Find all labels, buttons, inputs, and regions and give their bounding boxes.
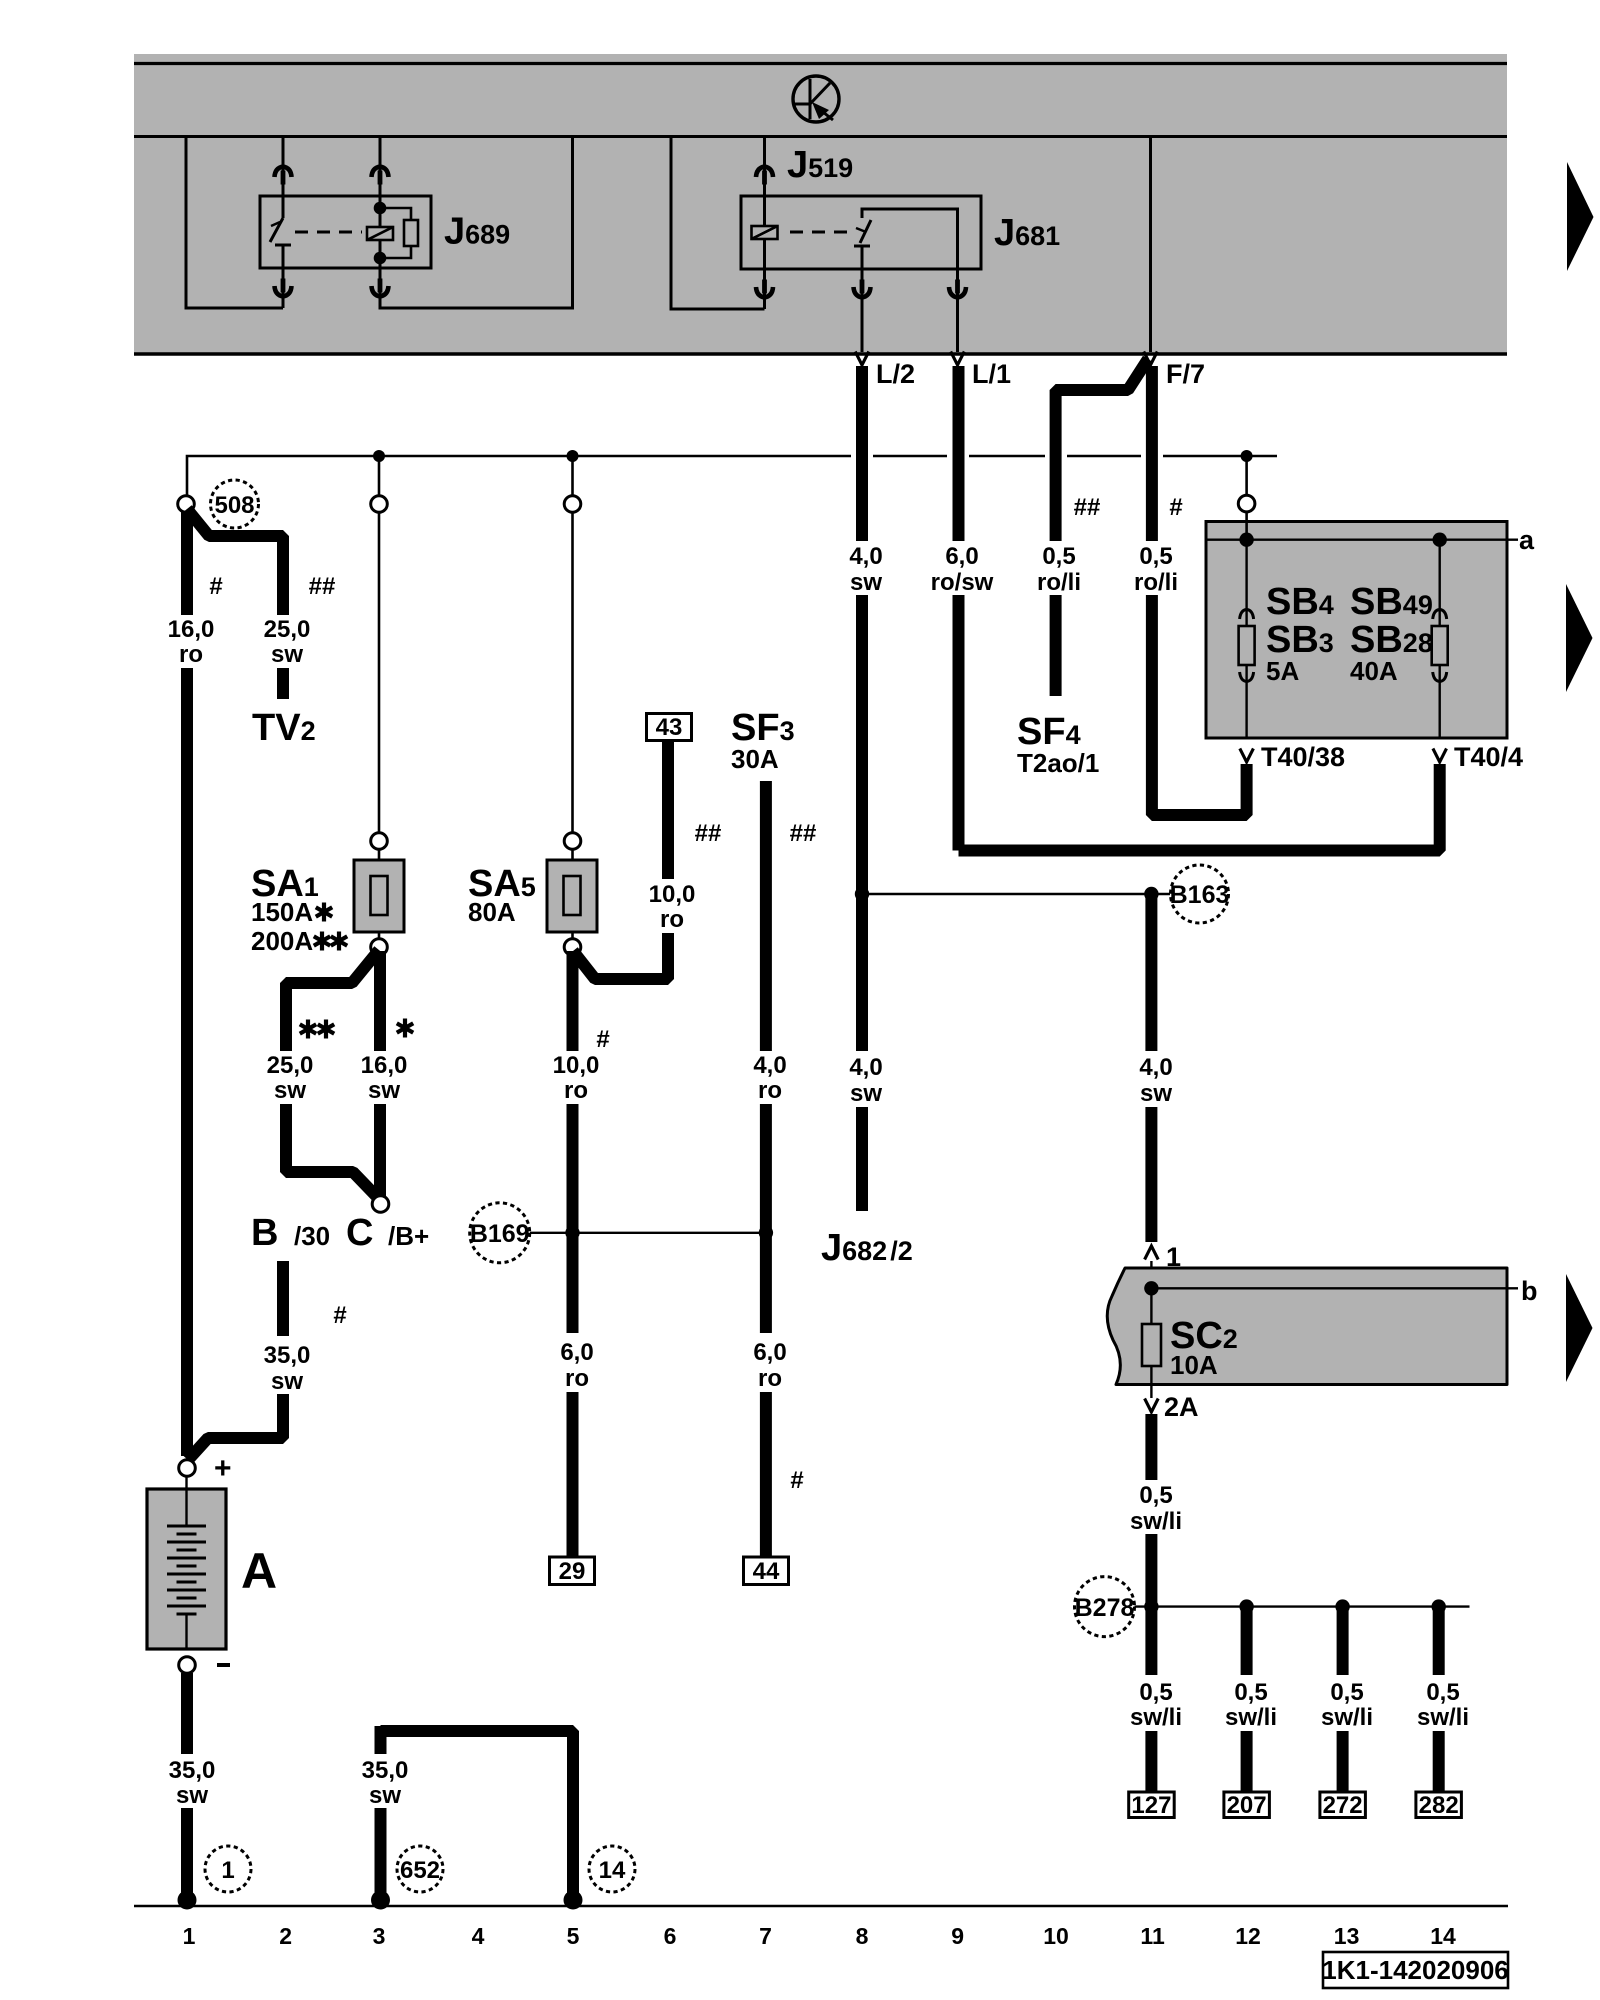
svg-text:8: 8 xyxy=(856,1923,869,1949)
svg-text:10A: 10A xyxy=(1170,1350,1218,1380)
wire: 4,0 ro from SF3 xyxy=(753,781,816,1333)
svg-text:2: 2 xyxy=(279,1923,292,1949)
svg-text:207: 207 xyxy=(1227,1792,1267,1819)
node coil bottom xyxy=(374,252,387,265)
svg-text:T40/4: T40/4 xyxy=(1454,742,1523,772)
svg-text:ro: ro xyxy=(565,1365,589,1392)
wire: 6,0 ro/sw from L/1 (column 9) xyxy=(931,366,994,851)
connector exit F/7 xyxy=(1144,352,1158,366)
wire: 4,0 sw to SC2 (column 11) xyxy=(1139,894,1172,1242)
diagram number box xyxy=(1322,1952,1509,1988)
connection B278 xyxy=(1075,1577,1470,1637)
battery negative terminal xyxy=(179,1657,230,1674)
svg-text:16,0: 16,0 xyxy=(361,1052,408,1079)
svg-text:25,0: 25,0 xyxy=(267,1052,314,1079)
svg-text:3: 3 xyxy=(373,1923,386,1949)
svg-text:1: 1 xyxy=(183,1923,196,1949)
svg-text:6,0: 6,0 xyxy=(945,543,978,570)
wire: 0,5 sw/li to terminal 272 xyxy=(1320,1607,1373,1819)
connector T40/38 xyxy=(1240,742,1345,772)
wire: J689 left supply loop xyxy=(186,137,283,309)
wire: 0,5 sw/li to terminal 207 xyxy=(1224,1607,1277,1819)
continuation arrow (SC right) xyxy=(1566,1274,1593,1382)
svg-text:##: ## xyxy=(695,820,722,847)
electronics box (top gray band) xyxy=(134,54,1507,356)
svg-text:ro: ro xyxy=(758,1077,782,1104)
svg-text:+: + xyxy=(214,1452,232,1485)
svg-text:29: 29 xyxy=(559,1558,586,1585)
battery A xyxy=(147,1477,277,1649)
continuation arrow (top right) xyxy=(1567,162,1594,271)
fuse SB4/SB3 xyxy=(1245,540,1247,738)
svg-text:C: C xyxy=(346,1212,373,1254)
wire: 25,0 sw branch to TV2 xyxy=(187,509,335,699)
wire: 10,0 ro below SA5 xyxy=(553,951,610,1333)
wire: 35,0 sw ground strap (column 3) xyxy=(362,1726,583,1910)
svg-text:43: 43 xyxy=(656,714,683,741)
svg-text:6: 6 xyxy=(664,1923,677,1949)
svg-text:ro/li: ro/li xyxy=(1134,569,1178,596)
svg-text:16,0: 16,0 xyxy=(168,616,215,643)
svg-text:127: 127 xyxy=(1131,1792,1171,1819)
resistor parallel to coil xyxy=(380,208,411,258)
svg-text:10: 10 xyxy=(1043,1923,1069,1949)
svg-text:#: # xyxy=(790,1467,803,1494)
wire: 16,0 ro battery positive (column 1) xyxy=(168,511,223,1456)
svg-text:sw/li: sw/li xyxy=(1417,1704,1469,1731)
relay J681 xyxy=(671,137,1060,353)
relay J689 xyxy=(186,137,573,309)
svg-text:b: b xyxy=(1521,1276,1538,1306)
wire: coil pin below box to right loop xyxy=(380,137,573,309)
wire: coil pin below box to left loop xyxy=(763,269,766,309)
svg-text:14: 14 xyxy=(1430,1923,1456,1949)
wire: feed to fuse SA5 xyxy=(564,456,581,860)
internal bus b xyxy=(1151,1287,1518,1289)
svg-text:ro: ro xyxy=(179,641,203,668)
svg-text:sw/li: sw/li xyxy=(1130,1704,1182,1731)
svg-text:35,0: 35,0 xyxy=(169,1757,216,1784)
svg-text:##: ## xyxy=(1074,494,1101,521)
node a-bus right xyxy=(1433,533,1447,547)
svg-text:a: a xyxy=(1519,525,1535,555)
fuse box SC (fuse holder, torn edge) xyxy=(1107,1268,1537,1385)
relay coil J681 xyxy=(763,196,766,226)
switch contact J681 xyxy=(854,209,958,269)
svg-text:0,5: 0,5 xyxy=(1042,543,1075,570)
fuse box SB (micro-central electrics) xyxy=(1206,456,1535,738)
svg-text:sw/li: sw/li xyxy=(1225,1704,1277,1731)
wire: J689 coil pin from bus xyxy=(379,137,382,197)
svg-text:12: 12 xyxy=(1235,1923,1261,1949)
svg-text:4: 4 xyxy=(472,1923,485,1949)
connection B169 xyxy=(470,1203,773,1263)
K symbol (data bus connection) xyxy=(793,76,839,122)
svg-text:0,5: 0,5 xyxy=(1139,1679,1172,1706)
svg-text:sw/li: sw/li xyxy=(1321,1704,1373,1731)
svg-text:/30: /30 xyxy=(294,1221,330,1251)
wire: 10,0 ro branch to terminal 43 xyxy=(573,714,721,980)
svg-text:10,0: 10,0 xyxy=(553,1052,600,1079)
svg-text:ro: ro xyxy=(660,906,684,933)
battery positive terminal xyxy=(179,1452,232,1485)
node coil top xyxy=(374,202,387,215)
svg-text:sw: sw xyxy=(274,1077,306,1104)
ground rail xyxy=(134,1905,1508,1908)
connection B163 xyxy=(862,865,1229,923)
node B278/column 14 xyxy=(1432,1599,1446,1613)
ground point 14 xyxy=(589,1846,635,1892)
svg-text:0,5: 0,5 xyxy=(1330,1679,1363,1706)
svg-text:4,0: 4,0 xyxy=(753,1052,786,1079)
fuse SF4 xyxy=(1017,711,1099,778)
svg-text:4,0: 4,0 xyxy=(849,543,882,570)
wire: feed to fuse SA1 xyxy=(371,456,388,860)
wire: switch pin to band edge (L/2) xyxy=(861,269,864,352)
svg-text:11: 11 xyxy=(1140,1923,1165,1949)
relay coil J689 xyxy=(379,196,382,227)
svg-text:25,0: 25,0 xyxy=(264,616,311,643)
node rail/SA5 xyxy=(567,450,579,462)
wire: F/7 feed line inside band xyxy=(1149,137,1152,353)
svg-text:F/7: F/7 xyxy=(1166,359,1205,389)
svg-text:#: # xyxy=(209,573,222,600)
svg-text:0,5: 0,5 xyxy=(1234,1679,1267,1706)
connector 2A xyxy=(1145,1385,1199,1423)
svg-text:B: B xyxy=(251,1212,278,1254)
node b-bus xyxy=(1144,1281,1158,1295)
wire: 6,0 ro to terminal 44 xyxy=(744,1339,804,1585)
node B169/SA5 wire xyxy=(565,1226,579,1240)
svg-text:ro: ro xyxy=(564,1077,588,1104)
svg-text:B278: B278 xyxy=(1075,1594,1135,1622)
svg-text:#: # xyxy=(333,1302,346,1329)
svg-text:40A: 40A xyxy=(1350,656,1398,686)
svg-text:T2ao/1: T2ao/1 xyxy=(1017,748,1099,778)
svg-text:sw: sw xyxy=(850,1080,882,1107)
ground point 652 xyxy=(397,1846,443,1892)
wire: J519 coil pin from bus xyxy=(763,137,766,197)
svg-text:7: 7 xyxy=(759,1923,772,1949)
relay J681 box xyxy=(741,196,981,269)
fuse SF3 xyxy=(731,707,795,774)
wire: 0,5 sw/li below SC2 (column 11) xyxy=(1129,1414,1182,1819)
svg-text:sw: sw xyxy=(369,1782,401,1809)
svg-text:150A: 150A xyxy=(251,897,313,927)
svg-text:#: # xyxy=(596,1026,609,1053)
svg-text:##: ## xyxy=(790,820,817,847)
svg-text:6,0: 6,0 xyxy=(753,1339,786,1366)
svg-text:10,0: 10,0 xyxy=(649,881,696,908)
node B278/column 13 xyxy=(1335,1599,1349,1613)
svg-text:#: # xyxy=(1169,494,1182,521)
svg-text:sw/li: sw/li xyxy=(1130,1508,1182,1535)
svg-text:13: 13 xyxy=(1334,1923,1360,1949)
wire: 35,0 sw battery ground (column 1) xyxy=(169,1673,216,1910)
svg-text:14: 14 xyxy=(599,1857,626,1884)
wire: 25,0 sw alternator branch (left, **) xyxy=(267,950,379,1199)
wire: 6,0 ro/sw to T40/4 xyxy=(959,764,1440,851)
svg-text:T40/38: T40/38 xyxy=(1261,742,1345,772)
dashed actuation link xyxy=(790,231,848,234)
continuation arrow (SB right) xyxy=(1566,584,1593,692)
svg-text:ro/sw: ro/sw xyxy=(931,569,994,596)
svg-text:sw: sw xyxy=(368,1077,400,1104)
wire: 35,0 sw from B to battery positive xyxy=(188,1261,347,1460)
svg-text:L/1: L/1 xyxy=(972,359,1011,389)
svg-text:##: ## xyxy=(309,573,336,600)
pin 1 connector xyxy=(1145,1242,1181,1288)
connection 508 xyxy=(178,480,259,528)
wire: switch pin below box xyxy=(282,268,285,308)
svg-text:9: 9 xyxy=(951,1923,964,1949)
svg-text:5: 5 xyxy=(567,1923,580,1949)
svg-text:200A: 200A xyxy=(251,926,313,956)
svg-text:80A: 80A xyxy=(468,897,516,927)
svg-text:44: 44 xyxy=(753,1558,780,1585)
wire: 0,5 sw/li to terminal 282 xyxy=(1416,1607,1469,1819)
svg-text:272: 272 xyxy=(1323,1792,1363,1819)
svg-text:0,5: 0,5 xyxy=(1139,1482,1172,1509)
svg-text:4,0: 4,0 xyxy=(849,1054,882,1081)
grid numbers xyxy=(183,1923,1456,1949)
svg-text:B169: B169 xyxy=(470,1220,530,1248)
connector T40/4 xyxy=(1433,742,1523,772)
svg-text:4,0: 4,0 xyxy=(1139,1054,1172,1081)
fuse SB49/SB28 xyxy=(1438,540,1440,738)
fuse SC2 xyxy=(1150,1288,1152,1384)
svg-text:sw: sw xyxy=(850,569,882,596)
node rail/SB xyxy=(1241,450,1253,462)
terminal C /B+ xyxy=(346,1196,429,1254)
svg-text:508: 508 xyxy=(214,492,254,519)
wire: J689 switch pin from bus xyxy=(282,137,285,197)
node B169/SF3 wire xyxy=(759,1226,773,1240)
svg-text:6,0: 6,0 xyxy=(560,1339,593,1366)
svg-text:0,5: 0,5 xyxy=(1426,1679,1459,1706)
svg-text:652: 652 xyxy=(400,1857,440,1884)
wire: rail drop into SB xyxy=(1245,456,1248,540)
svg-text:1: 1 xyxy=(221,1857,234,1884)
ground point 1 xyxy=(205,1846,251,1892)
switch contact J689 xyxy=(270,196,291,268)
wire: J681 left supply loop xyxy=(671,137,765,310)
svg-text:sw: sw xyxy=(1140,1080,1172,1107)
wire: 0,5 ro/li from F/7 to T40/38 (column 11) xyxy=(1134,366,1247,815)
connector exit L/2 xyxy=(855,352,869,366)
svg-text:282: 282 xyxy=(1419,1792,1459,1819)
wire: second pin to band edge (L/1) xyxy=(956,269,959,352)
svg-text:35,0: 35,0 xyxy=(264,1342,311,1369)
svg-text:sw: sw xyxy=(271,1368,303,1395)
svg-text:A: A xyxy=(241,1543,277,1599)
node B278/column 11 xyxy=(1144,1599,1158,1613)
svg-text:ro: ro xyxy=(758,1365,782,1392)
horizontal supply rail (terminal 30 bus) xyxy=(187,450,1277,504)
relay J689 box xyxy=(260,196,431,268)
node B278/column 12 xyxy=(1239,1599,1253,1613)
node a-bus left xyxy=(1239,533,1253,547)
node B163/column 11 xyxy=(1144,887,1158,901)
wire: 6,0 ro to terminal 29 xyxy=(550,1339,595,1585)
fuse SA1 xyxy=(251,860,404,956)
node rail/SA1 xyxy=(373,450,385,462)
connector exit L/1 xyxy=(951,352,965,366)
svg-text:5A: 5A xyxy=(1266,656,1299,686)
svg-text:30A: 30A xyxy=(731,744,779,774)
svg-text:L/2: L/2 xyxy=(876,359,915,389)
svg-text:0,5: 0,5 xyxy=(1139,543,1172,570)
svg-text:sw: sw xyxy=(271,641,303,668)
svg-text:ro/li: ro/li xyxy=(1037,569,1081,596)
svg-text:/B+: /B+ xyxy=(388,1221,429,1251)
internal bus a xyxy=(1206,539,1518,541)
wire: 16,0 sw alternator branch (right, *) xyxy=(361,951,414,1196)
dashed actuation link xyxy=(295,231,362,234)
svg-text:35,0: 35,0 xyxy=(362,1757,409,1784)
fuse SA5 xyxy=(468,860,597,955)
node to B163 tie line xyxy=(855,887,869,901)
svg-text:1K1-142020906: 1K1-142020906 xyxy=(1322,1955,1509,1985)
svg-text:sw: sw xyxy=(176,1782,208,1809)
svg-text:B163: B163 xyxy=(1170,881,1230,909)
wire: 0,5 ro/li branch of F/7 to SF4 (column 10) xyxy=(1037,359,1148,696)
wire: 4,0 sw from L/2 (column 8) xyxy=(849,366,882,1211)
terminal B /30 xyxy=(251,1212,330,1254)
svg-text:2A: 2A xyxy=(1164,1392,1199,1422)
